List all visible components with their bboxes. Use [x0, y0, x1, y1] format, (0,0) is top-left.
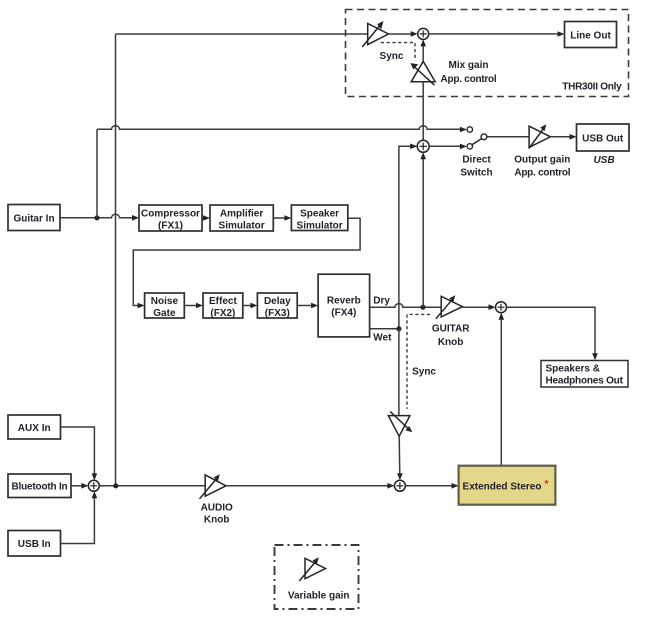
svg-text:(FX1): (FX1)	[158, 220, 183, 231]
box Speaker Simulator	[291, 205, 347, 231]
svg-text:Gate: Gate	[153, 308, 176, 319]
box Effect FX2	[203, 293, 243, 318]
svg-text:Dry: Dry	[373, 295, 390, 306]
wire effect to delay	[243, 305, 254, 307]
wire dry split up to S2	[422, 156, 424, 307]
box Speakers & Headphones Out	[541, 361, 628, 388]
svg-text:USB: USB	[593, 155, 614, 166]
svg-text:Speaker: Speaker	[300, 208, 339, 219]
wire S1 to Line Out	[429, 33, 561, 35]
wire wet bus up and into S2	[399, 146, 414, 328]
wire S5 to extended stereo	[405, 485, 455, 487]
wire guitar split up	[96, 129, 98, 218]
sync dashed link top	[381, 43, 415, 61]
dashed box THR30II Only	[346, 10, 629, 97]
wire dry line with hop over wet bus	[370, 304, 442, 308]
svg-text:Noise: Noise	[151, 296, 179, 307]
wire AUX to S4	[61, 427, 95, 477]
svg-text:(FX4): (FX4)	[331, 307, 356, 318]
svg-text:Simulator: Simulator	[297, 220, 343, 231]
wire amp sim to speaker sim	[273, 217, 288, 219]
direct switch terminal top	[467, 127, 472, 132]
box Noise Gate	[145, 293, 185, 318]
junction dot dry split	[420, 305, 425, 310]
wire AUDIO amp to S5	[226, 485, 391, 487]
sum node S3	[496, 302, 507, 313]
wire pivot to output gain amp	[487, 136, 529, 138]
svg-text:Output gain: Output gain	[514, 154, 570, 165]
box Bluetooth In	[8, 474, 71, 498]
wire compressor to amplifier simulator	[202, 217, 207, 219]
svg-text:Wet: Wet	[373, 333, 392, 344]
svg-text:THR30II Only: THR30II Only	[562, 82, 622, 93]
svg-text:USB In: USB In	[18, 539, 51, 550]
box Amplifier Simulator	[210, 205, 273, 231]
box Line Out	[565, 22, 617, 48]
wire audio bus top horizontal to mix amp	[116, 33, 368, 35]
wire S2 to direct switch lower terminal	[429, 145, 463, 147]
sum node S4	[88, 480, 99, 491]
wire mix amp to sum S1	[389, 33, 415, 35]
wire S2 up to mix amp base (crosses direct line under hop)	[422, 82, 424, 141]
svg-text:App. control: App. control	[514, 167, 570, 178]
wire USB In to S4	[61, 495, 95, 544]
svg-text:Switch: Switch	[460, 167, 492, 178]
svg-text:Sync: Sync	[412, 367, 436, 378]
svg-text:Speakers &: Speakers &	[546, 364, 600, 375]
wire wet line from reverb	[370, 328, 399, 330]
svg-text:AUDIO: AUDIO	[201, 503, 233, 514]
wire delay to reverb	[297, 305, 314, 307]
svg-text:Simulator: Simulator	[219, 220, 265, 231]
box Extended Stereo	[459, 466, 556, 505]
wire Bluetooth to S4	[71, 485, 85, 487]
wire amp to S5	[398, 436, 401, 476]
amp output gain app control	[529, 126, 551, 148]
box Guitar In	[8, 205, 60, 231]
box USB In	[8, 531, 61, 557]
svg-text:Knob: Knob	[438, 337, 464, 348]
svg-text:Line Out: Line Out	[570, 30, 611, 41]
svg-text:USB Out: USB Out	[582, 133, 624, 144]
wire extended stereo up to S3	[500, 316, 502, 465]
sum node S2	[417, 140, 429, 152]
sum node S1	[418, 28, 429, 39]
box Reverb FX4	[318, 274, 370, 337]
junction dot audio bus join	[113, 483, 118, 488]
junction dot guitar split	[94, 215, 99, 220]
wire S3 to speakers box	[507, 307, 596, 356]
svg-text:Knob: Knob	[204, 515, 230, 526]
direct switch pivot	[481, 134, 487, 140]
svg-text:Direct: Direct	[462, 154, 491, 165]
wire output gain amp to USB Out	[550, 136, 573, 138]
box AUX In	[8, 415, 61, 439]
svg-text:Variable gain: Variable gain	[288, 591, 350, 602]
svg-text:Effect: Effect	[209, 296, 237, 307]
box Compressor FX1	[139, 205, 202, 231]
sum node S5	[394, 480, 405, 491]
box Delay FX3	[257, 293, 297, 318]
wire noise gate to effect	[184, 305, 199, 307]
wire guitar out with hop over audio bus	[60, 214, 136, 218]
svg-text:Guitar In: Guitar In	[13, 213, 54, 224]
svg-text:GUITAR: GUITAR	[432, 323, 470, 334]
svg-text:App. control: App. control	[441, 74, 497, 85]
wire guitar amp to S3	[462, 306, 492, 308]
junction dot wet split	[396, 326, 401, 331]
amp line-out gain (variable gain, synced)	[362, 24, 388, 48]
wire guitar direct line with hops	[97, 126, 463, 130]
amp AUDIO knob	[200, 475, 227, 499]
legend amp symbol	[299, 558, 325, 581]
box USB Out	[577, 124, 630, 151]
svg-text:Amplifier: Amplifier	[220, 208, 263, 219]
svg-text:Headphones Out: Headphones Out	[546, 376, 624, 387]
wire mix amp apex to S1	[422, 43, 424, 61]
svg-text:Bluetooth In: Bluetooth In	[12, 482, 68, 493]
amp mix gain app control (up pointing)	[411, 61, 435, 85]
sync dashed link bottom	[407, 314, 430, 409]
svg-text:Reverb: Reverb	[327, 295, 361, 306]
svg-text:AUX In: AUX In	[18, 423, 51, 434]
legend box variable gain	[275, 545, 359, 609]
svg-text:Mix gain: Mix gain	[448, 60, 488, 71]
wire audio bus vertical	[115, 34, 117, 486]
svg-text:(FX2): (FX2)	[210, 308, 235, 319]
wire speaker sim return path to noise gate	[133, 218, 360, 305]
amp GUITAR knob	[436, 296, 463, 319]
svg-text:Delay: Delay	[264, 296, 291, 307]
amp extended stereo wet (down pointing)	[388, 412, 410, 437]
svg-text:Sync: Sync	[380, 51, 404, 62]
svg-text:Compressor: Compressor	[141, 208, 200, 219]
svg-text:(FX3): (FX3)	[265, 308, 290, 319]
wire S4 to AUDIO amp	[99, 485, 205, 487]
direct switch terminal bottom	[467, 144, 472, 149]
direct switch lever	[472, 139, 481, 145]
wire wet down to variable amp	[398, 329, 400, 416]
